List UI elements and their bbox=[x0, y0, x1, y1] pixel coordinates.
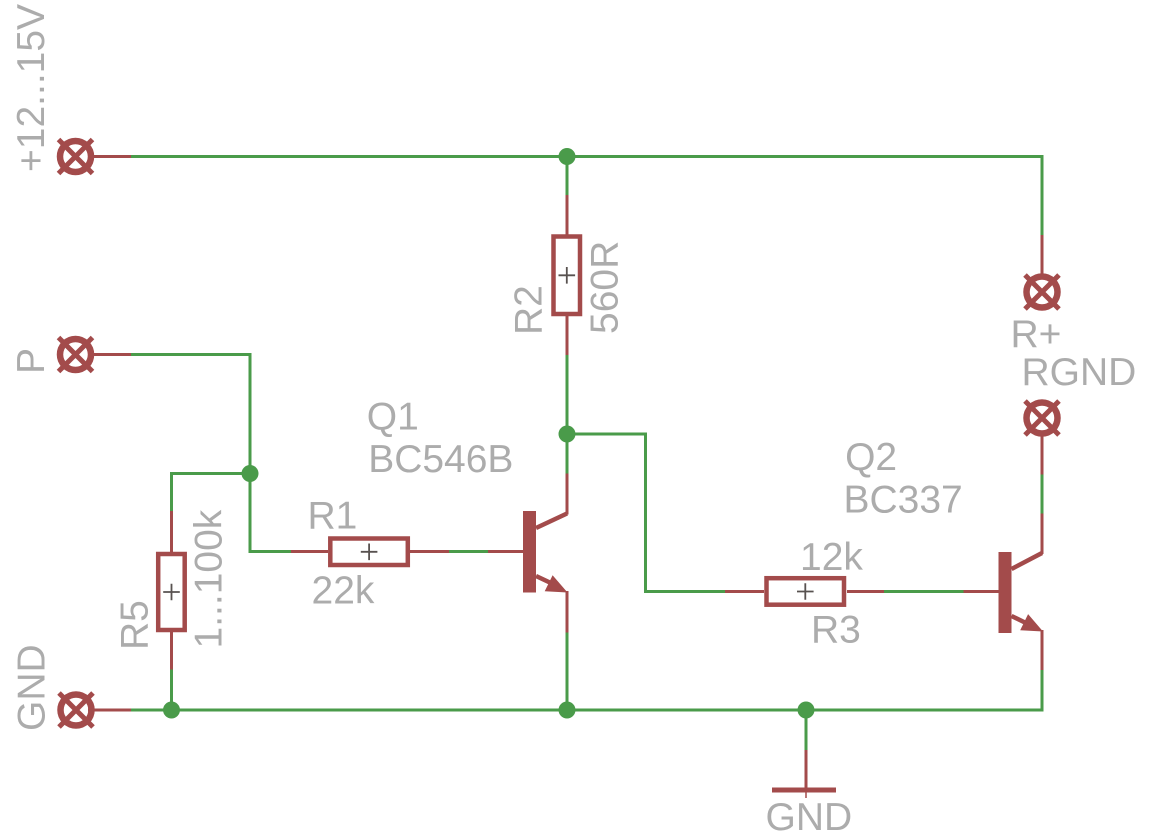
pin stub RGND pad bottom bbox=[1041, 431, 1044, 475]
junction R5 GND bbox=[163, 702, 180, 719]
pin stub R+ pad bbox=[1041, 235, 1044, 276]
resistor R5 bbox=[158, 554, 185, 630]
svg-text:GND: GND bbox=[11, 644, 54, 731]
pad pin P bbox=[59, 338, 93, 372]
pin stub R2 bottom bbox=[566, 315, 569, 355]
svg-text:Q2: Q2 bbox=[845, 436, 897, 479]
pin stub R3 left bbox=[725, 590, 764, 593]
svg-text:BC337: BC337 bbox=[844, 479, 963, 522]
transistor Q1 bbox=[488, 474, 568, 633]
pin stub R2 top bbox=[566, 195, 569, 236]
wire net GND rail bbox=[131, 670, 1042, 710]
pin stub GND pad bbox=[88, 709, 131, 712]
pin stub pad +12V bbox=[88, 155, 131, 158]
pin stub P pad bbox=[88, 353, 131, 356]
wire net node to R3 bbox=[567, 434, 725, 592]
svg-text:R1: R1 bbox=[308, 495, 358, 538]
wire net node to R5 bbox=[172, 474, 251, 512]
wire net Q1 base bbox=[449, 550, 488, 553]
svg-text:12k: 12k bbox=[800, 536, 863, 579]
pin stub R1 right bbox=[410, 550, 449, 553]
junction P node bbox=[242, 465, 259, 482]
svg-text:P: P bbox=[10, 348, 53, 374]
junction top of R2 bbox=[559, 148, 576, 165]
svg-text:R+: R+ bbox=[1011, 313, 1062, 356]
resistor R3 bbox=[767, 578, 845, 605]
wire net Q1 collector bbox=[566, 434, 569, 474]
svg-text:+12...15V: +12...15V bbox=[10, 4, 53, 172]
resistor R2 bbox=[554, 237, 581, 315]
svg-text:R2: R2 bbox=[508, 285, 551, 335]
svg-text:BC546B: BC546B bbox=[368, 438, 513, 481]
ground symbol GND bbox=[772, 750, 836, 798]
wire net +12V rail bbox=[131, 155, 1042, 235]
svg-text:22k: 22k bbox=[312, 570, 375, 613]
wire net Q2 collector bbox=[1041, 475, 1044, 514]
wire net node to R1 bbox=[250, 474, 291, 552]
resistor R1 bbox=[330, 539, 408, 566]
pin stub R1 left bbox=[291, 550, 328, 553]
svg-text:R3: R3 bbox=[811, 609, 861, 652]
pin stub R5 top bbox=[170, 511, 173, 552]
junction GND symbol bbox=[798, 702, 815, 719]
pad pin RGND bbox=[1025, 401, 1059, 435]
svg-text:1...100k: 1...100k bbox=[188, 509, 231, 648]
wire net R2 top bbox=[566, 157, 569, 196]
wire net R2 bottom to node bbox=[566, 355, 569, 434]
wire net P bbox=[131, 355, 250, 474]
wire net Q2 base bbox=[884, 590, 964, 593]
wire net Q1 emitter to GND rail bbox=[566, 633, 569, 711]
svg-text:R5: R5 bbox=[114, 600, 157, 650]
wire net GND drop bbox=[805, 710, 808, 750]
svg-text:Q1: Q1 bbox=[367, 395, 419, 438]
pad pin R+ bbox=[1025, 275, 1059, 309]
svg-text:560R: 560R bbox=[583, 241, 626, 334]
junction Q1 emitter GND bbox=[559, 702, 576, 719]
junction node collector Q1 bbox=[559, 426, 576, 443]
pad pin GND bbox=[59, 693, 93, 727]
pin stub R5 bottom bbox=[170, 631, 173, 670]
svg-text:RGND: RGND bbox=[1022, 351, 1137, 394]
wire net R5 to GND rail bbox=[170, 670, 173, 711]
pad pin +12...15V bbox=[59, 140, 93, 174]
pin stub R3 right bbox=[847, 590, 884, 593]
transistor Q2 bbox=[964, 514, 1044, 671]
svg-text:GND: GND bbox=[766, 796, 853, 837]
